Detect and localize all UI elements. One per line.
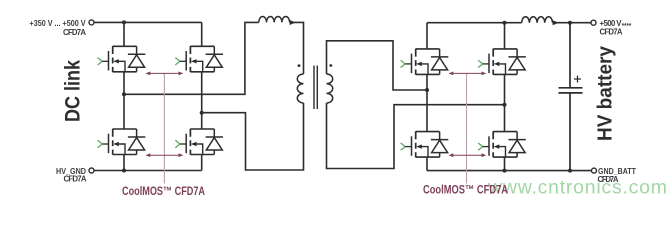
junction leg 2 midpoint [200,111,204,115]
wire gate-drive callout line, secondary bridge [466,74,468,184]
node GND_BATT terminal [592,168,597,173]
callout double arrow, primary bridge bottom pair [146,153,184,157]
svg-text:CFD7A: CFD7A [64,175,87,184]
node HV_GND terminal [89,168,94,173]
transformer T1 primary winding [297,74,303,103]
wire bottom rail of primary bridge [94,170,202,172]
callout double arrow, secondary bridge top pair [449,72,487,76]
svg-text:HV battery: HV battery [595,45,617,141]
wire gate-drive callout line, primary bridge [163,74,165,184]
wire L2 to output terminal [553,22,592,24]
junction bottom rail at secondary leg 2 [503,169,507,173]
svg-text:CFD7A: CFD7A [600,28,623,37]
wire primary leg 2 [201,22,203,170]
junction leg 1 midpoint [122,92,126,96]
wire top rail of primary bridge [94,21,202,23]
wire bottom rail of secondary bridge [427,170,592,172]
wire leg 1 midpoint to inductor L1 [124,22,259,94]
svg-text:CFD7A: CFD7A [63,28,86,37]
junction bottom rail at capacitor [568,169,572,173]
transformer T1 core [314,66,317,110]
wire secondary bottom to secondary-bridge leg 2 midpoint [327,103,505,169]
svg-text:CoolMOS™ CFD7A: CoolMOS™ CFD7A [423,183,508,197]
wire leg 2 midpoint to transformer primary bottom [202,103,304,170]
transformer T1 primary polarity dot [298,64,301,67]
transistor Q2 (primary bridge, high side right, with body diode) [175,46,223,72]
inductor L2 [522,17,553,23]
transistor Q7 (secondary bridge, low side left, with body diode) [401,131,449,157]
svg-text:DC link: DC link [61,60,85,122]
callout double arrow, primary bridge top pair [146,72,184,76]
wire L1 to transformer primary top [294,22,304,74]
junction top rail at capacitor [568,21,572,25]
capacitor C1 [559,23,583,171]
transistor Q6 (secondary bridge, high side right, with body diode) [478,49,526,75]
transistor Q4 (primary bridge, low side right, with body diode) [175,129,223,155]
arrowhead on L1 output [290,20,296,25]
wire secondary top to secondary-bridge leg 1 midpoint [327,41,428,90]
arrowhead on L2 output [553,20,559,25]
node VOUT+ terminal [591,20,596,25]
wire primary leg 1 [123,22,125,170]
junction secondary leg 2 midpoint [503,103,507,107]
wire secondary leg 2 [504,23,506,171]
junction bottom rail at leg 1 [122,169,126,173]
junction top rail at secondary leg 2 [503,21,507,25]
node VIN+ terminal [89,20,94,25]
capacitor C1 plus sign [574,76,581,83]
transistor Q1 (primary bridge, high side left, with body diode) [98,46,146,72]
svg-text:+350 V ... +500 V: +350 V ... +500 V [30,19,87,28]
transformer T1 secondary polarity dot [329,64,332,67]
svg-text:CFD7A: CFD7A [598,175,619,184]
callout double arrow, secondary bridge bottom pair [449,153,487,157]
inductor L1 [259,16,290,22]
transistor Q5 (secondary bridge, high side left, with body diode) [401,49,449,75]
junction secondary leg 1 midpoint [425,88,429,92]
transformer T1 secondary winding [327,74,333,103]
wire top rail of secondary bridge [427,22,522,24]
svg-text:CoolMOS™ CFD7A: CoolMOS™ CFD7A [122,184,205,198]
svg-text:****: **** [622,23,632,30]
wire secondary leg 1 [426,23,428,171]
junction top rail at leg 1 [122,20,126,24]
transistor Q3 (primary bridge, low side left, with body diode) [98,129,146,155]
transistor Q8 (secondary bridge, low side right, with body diode) [478,131,526,157]
svg-text:www.cntronics.com: www.cntronics.com [487,177,667,199]
